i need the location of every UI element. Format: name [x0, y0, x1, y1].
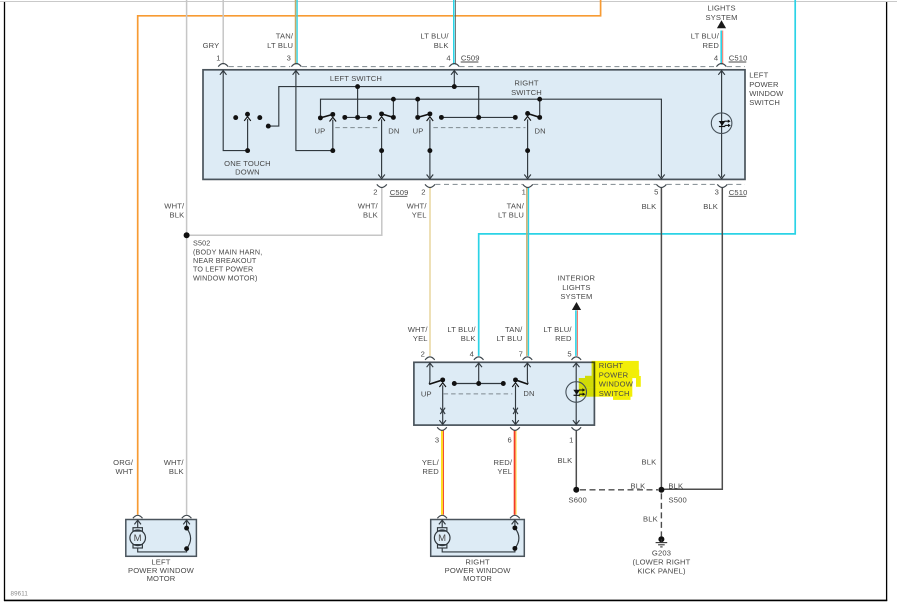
label LEFT POWER WINDOW SWITCH — [749, 71, 784, 108]
wire RED/YEL from right switch pin 6 to right motor — [514, 430, 516, 515]
connector bump pin 5 bottom — [656, 184, 666, 187]
svg-text:6: 6 — [508, 435, 512, 444]
svg-text:KICK PANEL): KICK PANEL) — [637, 567, 686, 576]
wire WHT/BLK left vertical top to left motor — [186, 0, 188, 515]
svg-text:2: 2 — [421, 350, 425, 359]
LED illumination lamp right switch — [566, 382, 587, 403]
svg-text:LT BLU: LT BLU — [267, 41, 293, 50]
svg-text:7: 7 — [519, 350, 523, 359]
lights system arrow — [717, 20, 726, 28]
connector bumps above left motor — [133, 515, 143, 518]
svg-text:G203: G203 — [652, 549, 671, 558]
one touch down contacts — [233, 112, 270, 129]
left motor box — [126, 520, 197, 557]
svg-text:C510: C510 — [729, 54, 748, 63]
svg-text:DN: DN — [523, 389, 534, 398]
svg-text:S502: S502 — [193, 239, 210, 248]
dashed link UP-DN right switch — [444, 393, 513, 395]
svg-text:3: 3 — [287, 54, 291, 63]
svg-text:BLK: BLK — [363, 210, 378, 219]
connector bump pin 4 C510 — [716, 64, 726, 67]
svg-text:GRY: GRY — [203, 41, 220, 50]
connector bumps above right motor — [437, 515, 447, 518]
svg-text:WHT/: WHT/ — [407, 202, 428, 211]
svg-text:BLK: BLK — [668, 482, 683, 491]
svg-text:BLK: BLK — [461, 334, 476, 343]
svg-text:(LOWER RIGHT: (LOWER RIGHT — [633, 558, 691, 567]
svg-text:TAN/: TAN/ — [276, 32, 294, 41]
svg-text:WHT/: WHT/ — [408, 325, 429, 334]
right motor internals — [438, 520, 519, 552]
wire TAN/LT BLU from pin 1 to right switch pin 7 — [526, 187, 528, 356]
wire DN1 contact row — [345, 116, 370, 118]
connector bump pin 3 C510 bottom — [717, 184, 727, 187]
svg-text:SWITCH: SWITCH — [599, 389, 630, 398]
wire DN1 right contact feed — [392, 99, 394, 115]
svg-text:BLK: BLK — [642, 202, 657, 211]
switch UP2 contacts and arm — [415, 111, 518, 121]
ground G203 — [656, 536, 668, 547]
wire UP2 left contact feed — [417, 99, 419, 115]
svg-text:89611: 89611 — [11, 591, 29, 598]
svg-text:LT BLU: LT BLU — [498, 210, 524, 219]
svg-text:4: 4 — [714, 54, 718, 63]
junction dots left switch — [245, 84, 542, 153]
entry arrows top of right switch — [427, 363, 580, 367]
svg-text:BLK: BLK — [169, 467, 184, 476]
wire UP common down to pin 3 — [442, 385, 444, 424]
svg-text:RED: RED — [703, 41, 720, 50]
svg-text:LT BLU: LT BLU — [496, 334, 522, 343]
wire LED vertical pin5 to pin1 — [575, 363, 577, 424]
wire GRY to pin 1 C509 — [222, 0, 224, 65]
left switch box body — [203, 70, 745, 180]
svg-text:POWER: POWER — [749, 80, 779, 89]
connector bumps bottom of right switch — [437, 427, 447, 430]
dashed wire S600 to S500 — [580, 489, 658, 491]
svg-text:YEL: YEL — [413, 334, 428, 343]
svg-text:3: 3 — [715, 188, 719, 197]
svg-text:LEFT: LEFT — [749, 71, 768, 80]
svg-text:MOTOR: MOTOR — [463, 574, 492, 583]
svg-text:SYSTEM: SYSTEM — [705, 13, 737, 22]
right switch box body — [414, 362, 595, 425]
svg-text:TO LEFT POWER: TO LEFT POWER — [193, 265, 253, 274]
svg-text:5: 5 — [567, 350, 571, 359]
svg-text:4: 4 — [446, 54, 450, 63]
svg-text:C509: C509 — [390, 188, 409, 197]
svg-text:TAN/: TAN/ — [507, 202, 525, 211]
svg-text:BLK: BLK — [703, 202, 718, 211]
connector bump pin 3 C509 — [291, 64, 301, 67]
svg-text:INTERIOR: INTERIOR — [558, 273, 596, 282]
svg-text:1: 1 — [216, 54, 220, 63]
mid double arrows right switch — [440, 408, 518, 414]
svg-text:RIGHT: RIGHT — [599, 361, 624, 370]
svg-text:C509: C509 — [461, 54, 480, 63]
entry arrows top of left switch — [220, 71, 725, 75]
svg-text:LT BLU/: LT BLU/ — [691, 32, 720, 41]
right motor box — [431, 520, 525, 557]
wire LT BLU/BLK right side run to right switch pin 4 — [479, 0, 796, 356]
svg-text:WHT: WHT — [115, 467, 133, 476]
connector bump pin 1 C509 — [218, 64, 228, 67]
svg-text:M: M — [438, 533, 446, 544]
connector bump pin 2 bottom — [425, 184, 435, 187]
svg-text:BLK: BLK — [643, 514, 658, 523]
svg-text:DN: DN — [535, 127, 546, 136]
connector bump pin 2 C509 bottom — [377, 184, 387, 187]
one touch common arrowhead — [244, 117, 251, 121]
wire pin4 entry drop — [453, 71, 455, 87]
svg-text:WHT/: WHT/ — [164, 202, 185, 211]
svg-text:RED: RED — [555, 334, 572, 343]
LED illumination lamp left switch U1 — [711, 113, 732, 134]
interior lights arrow — [572, 302, 581, 310]
svg-text:TAN/: TAN/ — [505, 325, 523, 334]
connector bumps top of right switch — [425, 357, 435, 360]
splice S500 dot — [658, 487, 664, 493]
svg-text:RIGHT: RIGHT — [514, 79, 539, 88]
svg-text:BLK: BLK — [641, 457, 656, 466]
right switch internal wiring — [429, 363, 576, 424]
svg-text:M: M — [134, 533, 142, 544]
connector bump pin 4 C509 — [449, 64, 459, 67]
splice S600 dot — [573, 487, 579, 493]
wire pin7 entry — [526, 363, 529, 384]
wire pin4 entry to contact row — [478, 363, 480, 381]
wire DN common down to pin 6 — [515, 385, 517, 424]
wire DN2 right contact feed — [539, 99, 541, 115]
right motor M symbol — [434, 530, 450, 546]
wire UP2 common down to pin 2 — [429, 119, 431, 177]
connector C509/C510 bottom dashed line — [435, 183, 745, 185]
svg-text:SWITCH: SWITCH — [749, 98, 780, 107]
svg-text:LEFT SWITCH: LEFT SWITCH — [330, 74, 382, 83]
svg-text:WINDOW: WINDOW — [599, 380, 634, 389]
left motor M symbol — [130, 530, 146, 546]
svg-text:C510: C510 — [729, 188, 748, 197]
wire WHT/YEL from pin 2 to right switch pin 2 — [429, 187, 431, 356]
svg-text:(BODY MAIN HARN,: (BODY MAIN HARN, — [193, 247, 262, 256]
wire bus B — [321, 99, 662, 177]
wire contact row 2 — [441, 116, 515, 118]
wire DN1 common down to pin 2 — [381, 119, 383, 177]
svg-text:YEL: YEL — [412, 210, 427, 219]
highlight marker yellow — [579, 361, 641, 400]
wire pin1 entry to one-touch common — [223, 71, 247, 151]
wire LT BLU/RED from interior-lights arrow to right switch pin 5 — [575, 310, 577, 356]
switch DN2 contacts and arm — [524, 111, 542, 121]
svg-text:5: 5 — [654, 188, 658, 197]
svg-text:UP: UP — [421, 389, 432, 398]
svg-text:DN: DN — [388, 127, 399, 136]
wire LED vertical C510 — [721, 71, 723, 178]
svg-text:SYSTEM: SYSTEM — [560, 292, 592, 301]
svg-text:BLK: BLK — [630, 482, 645, 491]
svg-text:1: 1 — [522, 188, 526, 197]
left switch internal wiring — [223, 71, 721, 178]
svg-text:WINDOW: WINDOW — [749, 89, 784, 98]
wire DN1 contact feed — [357, 87, 359, 115]
svg-text:2: 2 — [373, 188, 377, 197]
wire LT BLU/BLK to pin 4 C509 — [453, 0, 455, 65]
svg-text:UP: UP — [413, 127, 424, 136]
svg-text:SWITCH: SWITCH — [511, 88, 542, 97]
label S502 block — [193, 239, 262, 283]
svg-text:3: 3 — [435, 435, 439, 444]
right switch contacts and arms — [429, 377, 528, 387]
svg-text:S500: S500 — [669, 496, 687, 505]
connector C509/C510 top dashed line — [229, 66, 745, 68]
svg-text:LT BLU/: LT BLU/ — [543, 325, 572, 334]
wire pin2 entry — [428, 363, 431, 384]
svg-text:MOTOR: MOTOR — [147, 574, 176, 583]
svg-text:DOWN: DOWN — [235, 167, 260, 176]
svg-text:YEL: YEL — [497, 467, 512, 476]
svg-text:UP: UP — [314, 127, 325, 136]
switch UP1 contacts and arm — [318, 112, 336, 122]
exit arrows bottom of left switch — [378, 175, 725, 179]
svg-text:LIGHTS: LIGHTS — [562, 283, 590, 292]
svg-text:LT BLU/: LT BLU/ — [447, 325, 476, 334]
dashed link UP2-DN2 — [433, 127, 525, 129]
left motor internals — [133, 520, 191, 552]
svg-text:4: 4 — [470, 350, 474, 359]
exit arrows bottom of right switch — [439, 420, 579, 424]
label RIGHT POWER WINDOW SWITCH — [599, 361, 634, 398]
splice S502 dot — [184, 232, 190, 238]
svg-text:RED: RED — [422, 467, 439, 476]
switch DN1 contacts and arm — [342, 111, 396, 121]
svg-text:POWER: POWER — [599, 370, 629, 379]
svg-text:S600: S600 — [569, 496, 587, 505]
wire YEL/RED from right switch pin 3 to right motor — [441, 430, 443, 515]
svg-text:2: 2 — [421, 188, 425, 197]
wire UP1 riser — [332, 120, 334, 151]
dashed link UP1-DN1 — [335, 127, 379, 129]
wire bus A one-touch feed — [268, 87, 478, 127]
svg-text:WHT/: WHT/ — [358, 202, 379, 211]
wire BLK from pin 3 C510 to splice S500 — [663, 187, 722, 489]
svg-text:BLK: BLK — [169, 210, 184, 219]
wire one-touch common riser — [247, 119, 249, 151]
wire ORG/WHT orange from top to left motor — [138, 0, 601, 515]
wire LT BLU/RED from lights-system arrow to pin 4 C510 — [720, 31, 722, 65]
wire WHT/BLK from pin 2 C509 to splice S502 — [187, 187, 382, 235]
wire pin3 entry to UP1 riser — [296, 71, 333, 151]
svg-text:BLK: BLK — [434, 41, 449, 50]
wire BLK from right switch pin 1 to splice S600 — [575, 430, 577, 490]
connector bump pin 1 bottom — [523, 184, 533, 187]
wire DN2 common down to pin 1 — [527, 119, 529, 177]
svg-text:BLK: BLK — [557, 456, 572, 465]
dashed wire S500 to G203 — [660, 493, 662, 536]
wire BLK from pin 5 to splice S500 — [660, 187, 662, 490]
svg-text:WINDOW MOTOR): WINDOW MOTOR) — [193, 273, 258, 282]
svg-text:LT BLU/: LT BLU/ — [420, 32, 449, 41]
wire TAN/LT BLU to pin 3 C509 — [295, 0, 297, 65]
wire contact row — [454, 383, 503, 385]
svg-text:1: 1 — [569, 435, 573, 444]
svg-text:LIGHTS: LIGHTS — [707, 4, 735, 13]
